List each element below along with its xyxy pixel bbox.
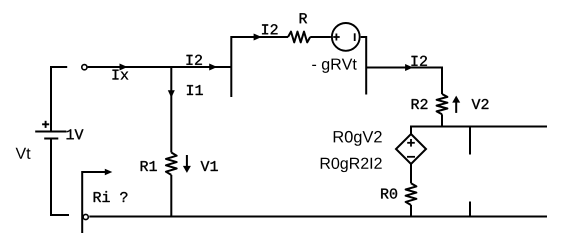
wire: top horizontal input run (Ix / I2 net): [88, 66, 232, 68]
wire: R2 bottom lead: [441, 114, 443, 126]
diamond minus sign: [407, 156, 415, 158]
node: top input terminal (open circle): [82, 65, 87, 70]
voltage source - gRVt (circle): [332, 23, 360, 51]
battery plus sign: [42, 121, 49, 128]
wire: diamond to R0: [410, 164, 412, 183]
arrow V1 head (down): [183, 166, 191, 173]
label I2 second: [412, 56, 427, 66]
arrow I2 first (right): [209, 64, 217, 71]
label R0gR2I2: [321, 158, 382, 173]
resistor R1 zigzag: [166, 153, 177, 175]
wire: bottom rail: [89, 216, 547, 218]
label R1: [141, 161, 157, 171]
label V1: [201, 161, 218, 171]
label V2: [472, 99, 489, 109]
resistor R zigzag: [288, 32, 310, 43]
arrow Ri head (right): [105, 169, 113, 176]
diamond plus sign: [407, 139, 415, 147]
label 1V: [67, 129, 84, 139]
arrow I1 (down): [168, 90, 175, 98]
wire: top rail and diamond top lead: [411, 127, 547, 135]
label R2: [412, 99, 428, 109]
label Vt: [16, 148, 31, 159]
wire: open stub top at x=470: [469, 127, 471, 155]
label R0: [381, 189, 397, 199]
label R0gV2: [334, 131, 382, 146]
resistor R2 zigzag: [437, 94, 448, 114]
arrow I2 right run (right): [405, 64, 413, 71]
wire: top run to resistor R: [231, 36, 288, 38]
battery Vt bottom lead wire: [51, 139, 69, 216]
battery Vt top lead wire: [51, 67, 67, 131]
wire: open stub bottom at x=470: [469, 202, 471, 217]
V1 arrow line: [186, 155, 188, 166]
label I1: [187, 85, 203, 95]
wire: R0 bottom lead: [410, 205, 412, 217]
label Ri ?: [94, 191, 128, 202]
wire: R1 branch vertical: [170, 67, 172, 153]
wire: source to right corner and vertical stub at x=366: [361, 37, 367, 95]
source plus sign: [333, 34, 340, 41]
battery Vt long plate: [35, 131, 66, 133]
wire: R to source circle: [310, 36, 331, 38]
label I2 top run: [262, 24, 277, 34]
arrow I2 top run (right): [254, 34, 262, 41]
source minus bar: [354, 33, 356, 41]
Ri measurement arrow line: [82, 172, 105, 233]
wire: R1 bottom lead: [170, 175, 172, 217]
V2 arrow line: [455, 103, 457, 113]
dependent source diamond R0gV2/R0gR2I2: [396, 134, 426, 164]
label I2 first: [187, 55, 202, 65]
wire: right I2 horizontal run and R2 top lead: [366, 68, 442, 95]
label Ix: [113, 70, 129, 80]
label - gRVt: [312, 59, 357, 73]
battery Vt short plate: [44, 138, 58, 140]
node: bottom input terminal (open circle): [83, 214, 88, 219]
label R: [300, 13, 307, 23]
arrow Ix (right): [120, 64, 128, 71]
arrow V2 head (up): [452, 96, 460, 103]
resistor R0 zigzag: [406, 183, 417, 205]
wire: vertical stub at x=231: [230, 36, 232, 97]
